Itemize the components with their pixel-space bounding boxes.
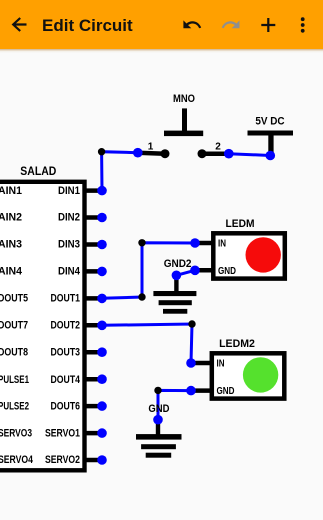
junction node DOUT2 corner (188, 320, 195, 327)
svg-text:DIN2: DIN2 (58, 212, 80, 224)
switch terminal 2 lead (202, 151, 229, 156)
pin DOUT4 stub (83, 377, 102, 382)
switch MNO actuator (164, 108, 203, 136)
pin DIN4 stub (83, 269, 102, 274)
node LEDM2 IN (186, 358, 196, 368)
junction node LEDM2 GND corner (154, 387, 161, 394)
junction node DOUT1 corner lower (138, 293, 145, 300)
wire LEDM2 GND to GND (158, 390, 191, 419)
svg-text:1: 1 (148, 142, 154, 153)
LEDM pin GND stub (195, 268, 213, 273)
svg-text:SERVO3: SERVO3 (0, 427, 32, 439)
switch contact node 1 (161, 149, 170, 158)
svg-text:AIN4: AIN4 (0, 266, 23, 278)
svg-text:DOUT3: DOUT3 (51, 346, 81, 358)
node DIN3 (97, 240, 107, 250)
back arrow icon (13, 18, 26, 31)
svg-text:AIN3: AIN3 (0, 239, 22, 251)
svg-text:GND: GND (218, 266, 236, 277)
svg-text:DOUT6: DOUT6 (51, 400, 81, 412)
node DOUT6 (97, 401, 107, 411)
ground GND symbol (136, 420, 182, 458)
node DIN1 (97, 186, 107, 196)
LEDM2 pin GND stub (191, 388, 212, 393)
pin DIN2 stub (83, 215, 102, 220)
LEDM pin IN stub (195, 241, 213, 246)
pin SERVO1 stub (83, 431, 102, 436)
svg-text:PULSE1: PULSE1 (0, 374, 29, 386)
wire switch terminal 2 to 5V DC (229, 154, 270, 156)
svg-text:LEDM2: LEDM2 (219, 338, 255, 350)
pin DOUT1 stub (83, 296, 102, 301)
svg-text:LEDM: LEDM (226, 218, 255, 230)
LED LEDM2 box (212, 353, 284, 398)
svg-text:MNO: MNO (173, 93, 195, 105)
LEDM2 green lens (243, 357, 278, 392)
LEDM red lens (246, 237, 281, 272)
node SERVO1 (97, 428, 107, 438)
switch terminal 1 lead (138, 153, 165, 154)
svg-text:GND: GND (148, 403, 169, 415)
node GND terminal (153, 415, 163, 425)
node LEDM2 GND (186, 386, 196, 396)
svg-text:DIN1: DIN1 (58, 185, 80, 197)
switch contact node 2 (198, 149, 207, 158)
svg-text:SALAD: SALAD (20, 164, 56, 178)
svg-text:SERVO4: SERVO4 (0, 454, 34, 466)
LEDM2 pin IN stub (191, 361, 212, 366)
left pin labels (0, 185, 34, 466)
svg-text:DOUT8: DOUT8 (0, 346, 28, 358)
right pin labels (45, 185, 81, 466)
svg-text:5V DC: 5V DC (255, 116, 284, 128)
svg-text:GND: GND (217, 386, 235, 397)
pin DOUT2 stub (83, 323, 102, 328)
app bar (0, 0, 323, 49)
svg-text:SERVO1: SERVO1 (45, 427, 80, 439)
node DOUT2 (97, 321, 107, 331)
node DOUT4 (97, 374, 107, 384)
node DOUT1 (97, 294, 107, 304)
node switch 1 wire end (133, 148, 143, 158)
node GND2 terminal (172, 271, 182, 281)
svg-text:DIN4: DIN4 (58, 266, 81, 278)
node LEDM IN (190, 238, 200, 248)
redo icon (disabled) (222, 20, 240, 28)
ground GND2 symbol (153, 275, 196, 313)
pin DIN1 stub (83, 188, 102, 193)
pin DOUT6 stub (83, 404, 102, 409)
svg-text:DOUT2: DOUT2 (51, 320, 81, 332)
node 5V DC terminal (266, 151, 276, 161)
svg-text:DOUT7: DOUT7 (0, 320, 28, 332)
power supply 5V DC symbol (248, 131, 294, 156)
svg-text:AIN2: AIN2 (0, 212, 22, 224)
junction node DOUT1 corner upper (138, 239, 145, 246)
svg-text:2: 2 (215, 142, 221, 153)
LED LEDM box (213, 233, 284, 278)
title Edit Circuit (42, 17, 133, 34)
svg-text:IN: IN (217, 359, 225, 370)
svg-text:DOUT5: DOUT5 (0, 293, 28, 305)
node switch 2 wire end (224, 149, 234, 159)
node DIN2 (97, 213, 107, 223)
pin SERVO2 stub (83, 458, 102, 463)
svg-text:GND2: GND2 (164, 258, 192, 270)
app bar shadow (0, 49, 323, 53)
svg-text:PULSE2: PULSE2 (0, 400, 29, 412)
node SERVO2 (97, 455, 107, 465)
plus icon (261, 18, 275, 32)
svg-text:DIN3: DIN3 (58, 239, 80, 251)
wire net DOUT1 to LEDM IN (102, 243, 195, 298)
node LEDM GND (190, 266, 200, 276)
node DOUT3 (97, 347, 107, 357)
node DIN4 (97, 267, 107, 277)
undo icon (183, 20, 201, 28)
pin DOUT3 stub (83, 350, 102, 355)
overflow menu icon (3 dots) (301, 17, 305, 32)
pin DIN3 stub (83, 242, 102, 247)
junction node at DIN1 wire corner (98, 148, 105, 155)
svg-text:DOUT1: DOUT1 (51, 293, 81, 305)
svg-text:AIN1: AIN1 (0, 185, 22, 197)
wire net DIN1: switch terminal 1 to DIN1 (102, 152, 138, 191)
component SALAD box (0, 182, 85, 471)
svg-text:DOUT4: DOUT4 (51, 374, 81, 386)
svg-text:SERVO2: SERVO2 (45, 454, 80, 466)
wire LEDM GND to GND2 (176, 270, 195, 275)
wire net DOUT2 to LEDM2 IN (102, 324, 192, 363)
svg-text:IN: IN (218, 239, 226, 250)
